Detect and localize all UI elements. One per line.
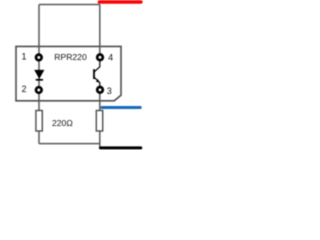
svg-text:2: 2 bbox=[21, 84, 26, 94]
pin 4 terminal bbox=[97, 55, 103, 61]
svg-text:3: 3 bbox=[107, 86, 112, 96]
wire: left vertical (supply to pin1, LED chain, pin2 to resistor to bottom) bbox=[38, 5, 40, 144]
svg-text:4: 4 bbox=[108, 52, 113, 62]
wire: right vertical lower (pin3 down to resistor and bottom corner) bbox=[99, 88, 101, 148]
svg-text:RPR220: RPR220 bbox=[54, 52, 87, 62]
wire: bottom horizontal net (left resistor to right resistor bottom) bbox=[39, 143, 100, 145]
svg-text:1: 1 bbox=[21, 52, 26, 62]
LED D1 (emitter diode of RPR220) bbox=[34, 70, 44, 80]
wire: blue signal wire bbox=[102, 106, 140, 109]
pin 3 terminal bbox=[97, 87, 103, 93]
resistor R2 (right) bbox=[96, 111, 102, 132]
resistor R1 220 ohm (left) bbox=[36, 111, 42, 132]
component body RPR220 (chamfered rectangle) bbox=[16, 46, 121, 100]
svg-text:220Ω: 220Ω bbox=[52, 118, 73, 128]
phototransistor Q1 (of RPR220) bbox=[94, 62, 100, 87]
wire: top horizontal net (pin1 to pin4 supply) bbox=[39, 4, 100, 6]
pin 1 terminal bbox=[36, 55, 42, 61]
wire: red supply wire bbox=[99, 0, 140, 3]
pin 2 terminal bbox=[36, 87, 42, 93]
wire: right vertical upper (supply to pin4) bbox=[99, 5, 101, 59]
wire: black ground wire bbox=[100, 146, 140, 149]
